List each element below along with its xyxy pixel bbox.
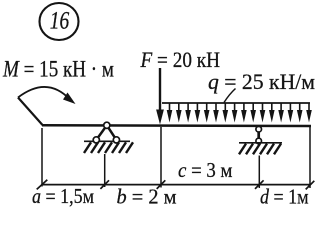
dimension line — [42, 184, 310, 186]
extension line at left support — [104, 154, 106, 187]
moment arrow (curved) at left beam end — [18, 87, 76, 125]
beam — [42, 124, 311, 127]
problem number circle 16 — [40, 3, 79, 40]
svg-text:b = 2 м: b = 2 м — [117, 184, 177, 208]
svg-text:q = 25 кН/м: q = 25 кН/м — [208, 69, 315, 94]
force F arrow — [156, 68, 164, 125]
extension line at right beam end — [309, 127, 311, 188]
ground line right support — [239, 142, 282, 144]
extension line at right support — [258, 156, 260, 189]
roller support (right) link — [239, 126, 282, 143]
distributed load q top line — [162, 102, 310, 104]
svg-text:M = 15 кН · м: M = 15 кН · м — [2, 57, 114, 82]
svg-text:d = 1м: d = 1м — [260, 185, 309, 209]
svg-text:a = 1,5м: a = 1,5м — [32, 184, 94, 208]
svg-text:c = 3 м: c = 3 м — [178, 158, 233, 182]
hatching right support — [239, 144, 281, 155]
ground line left support — [84, 140, 130, 142]
pin support (left) triangle — [84, 122, 130, 143]
distributed load arrows — [167, 103, 312, 123]
dimension tick slashes — [37, 180, 315, 190]
svg-text:16: 16 — [50, 7, 70, 34]
extension line at force F — [160, 127, 162, 188]
hatching left support — [84, 142, 133, 153]
q leader line — [224, 89, 236, 103]
extension line at left beam end — [41, 128, 43, 187]
